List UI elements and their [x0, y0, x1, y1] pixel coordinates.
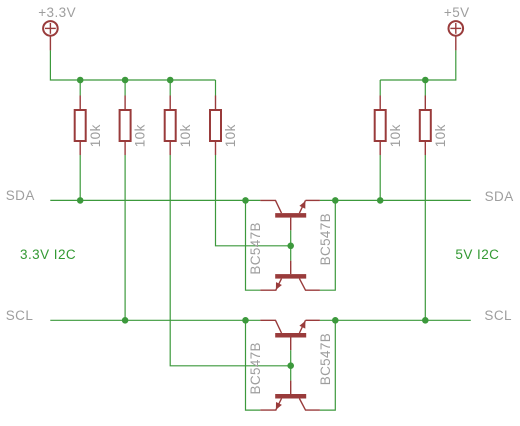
- svg-text:SDA: SDA: [485, 189, 514, 204]
- svg-text:SCL: SCL: [484, 308, 512, 323]
- resistor R3: [165, 80, 176, 155]
- svg-text:BC547B: BC547B: [318, 213, 333, 265]
- transistor Q3 (top): [260, 320, 320, 350]
- wire Q3 base: [290, 350, 292, 366]
- junction (right net / Q1): [332, 197, 339, 204]
- junction (3.3V bus / R3): [167, 77, 174, 84]
- resistor R6: [420, 80, 431, 155]
- wire Q4 base: [290, 366, 292, 381]
- wire R1 to SDA: [79, 155, 81, 200]
- wire Q2 collector to net (right vertical): [320, 200, 335, 290]
- transistor Q2 (bottom): [260, 261, 320, 291]
- wire +3.3V bus: [50, 50, 215, 80]
- wire R5 to SDA: [379, 155, 381, 200]
- svg-text:10k: 10k: [178, 124, 193, 147]
- transistor Q1 (top): [260, 200, 320, 230]
- resistor R4: [210, 80, 221, 155]
- wire R6 to SCL: [424, 155, 426, 320]
- svg-text:BC547B: BC547B: [248, 342, 263, 394]
- wire net SDA right: [320, 199, 471, 201]
- wire net SCL left: [50, 319, 260, 321]
- svg-text:10k: 10k: [88, 124, 103, 147]
- wire R2 to SCL: [124, 155, 126, 320]
- resistor R1: [75, 80, 86, 155]
- svg-text:SCL: SCL: [6, 308, 34, 323]
- junction (bases Q1/Q2): [287, 243, 294, 250]
- wire Q4 collector to net (right vertical): [320, 320, 335, 410]
- svg-text:+3.3V: +3.3V: [38, 5, 76, 20]
- wire Q2 base: [290, 246, 292, 261]
- svg-text:10k: 10k: [133, 124, 148, 147]
- transistor Q4 (bottom): [260, 381, 320, 411]
- junction (left net / Q1): [242, 197, 249, 204]
- svg-text:10k: 10k: [223, 124, 238, 147]
- wire net SDA left: [50, 199, 260, 201]
- junction (SDA left / R1): [77, 197, 84, 204]
- svg-text:BC547B: BC547B: [318, 333, 333, 385]
- svg-text:10k: 10k: [388, 124, 403, 147]
- wire Q4 emitter to net (left vertical): [246, 320, 261, 410]
- junction (bases Q3/Q4): [287, 362, 294, 369]
- svg-text:10k: 10k: [433, 124, 448, 147]
- svg-text:5V I2C: 5V I2C: [455, 247, 499, 262]
- resistor R5: [375, 80, 386, 155]
- wire R3 to Q3/Q4 bases: [170, 155, 291, 366]
- resistor R2: [120, 80, 131, 155]
- junction (left net / Q3): [242, 317, 249, 324]
- junction (3.3V bus / R2): [122, 77, 129, 84]
- junction (SCL right / R6): [422, 317, 429, 324]
- junction (SDA right / R5): [377, 197, 384, 204]
- junction (right net / Q3): [332, 317, 339, 324]
- svg-text:+5V: +5V: [444, 5, 470, 20]
- junction (SCL left / R2): [122, 317, 129, 324]
- svg-text:SDA: SDA: [6, 188, 35, 203]
- wire +5V bus: [380, 50, 456, 80]
- wire Q1 base: [290, 230, 292, 246]
- wire Q2 emitter to net (left vertical): [246, 200, 261, 290]
- wire net SCL right: [320, 319, 471, 321]
- power symbol +3.3V: [43, 21, 58, 50]
- power symbol +5V: [449, 21, 464, 50]
- wire R4 to Q1/Q2 bases: [216, 155, 291, 246]
- svg-text:BC547B: BC547B: [248, 222, 263, 274]
- svg-text:3.3V I2C: 3.3V I2C: [20, 247, 76, 262]
- junction (3.3V bus / R1): [77, 77, 84, 84]
- junction (5V bus / R6): [422, 77, 429, 84]
